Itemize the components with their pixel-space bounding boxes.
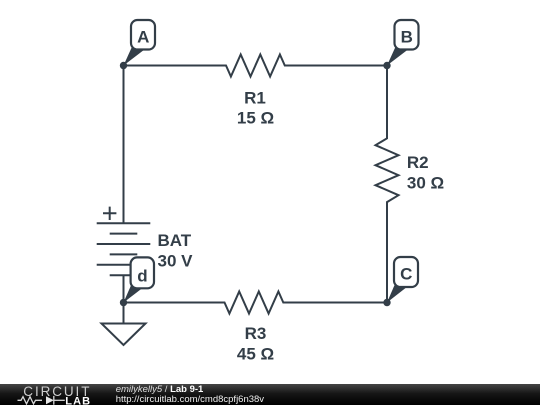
svg-text:45 Ω: 45 Ω	[237, 345, 274, 364]
svg-text:B: B	[401, 27, 413, 46]
svg-text:http://circuitlab.com/cmd8cpfj: http://circuitlab.com/cmd8cpfj6n38v	[116, 394, 265, 405]
svg-text:30 Ω: 30 Ω	[407, 173, 444, 192]
svg-text:30 V: 30 V	[158, 252, 194, 271]
svg-text:R1: R1	[244, 89, 266, 108]
svg-text:LAB: LAB	[65, 395, 91, 405]
svg-text:A: A	[137, 27, 149, 46]
svg-text:C: C	[400, 265, 412, 284]
svg-text:d: d	[137, 267, 147, 286]
svg-text:R2: R2	[407, 153, 429, 172]
svg-text:15 Ω: 15 Ω	[237, 109, 274, 128]
svg-text:BAT: BAT	[158, 231, 192, 250]
svg-text:R3: R3	[245, 324, 267, 343]
